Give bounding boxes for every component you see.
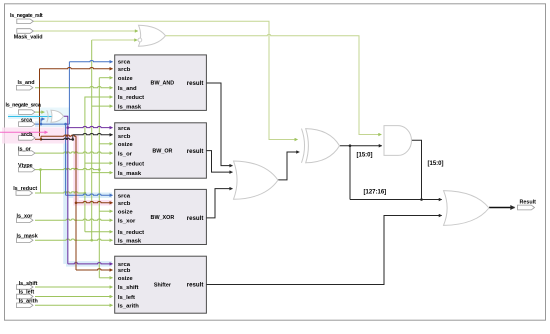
- svg-text:osize: osize: [118, 209, 133, 215]
- svg-text:osize: osize: [118, 76, 133, 82]
- svg-text:[127:16]: [127:16]: [364, 190, 387, 196]
- svg-text:ls_arith: ls_arith: [118, 304, 139, 310]
- svg-text:srca: srca: [118, 126, 131, 132]
- svg-text:osize: osize: [118, 276, 133, 282]
- svg-text:ls_mask: ls_mask: [118, 104, 142, 110]
- svg-text:Vtype: Vtype: [18, 163, 33, 169]
- svg-text:ls_and: ls_and: [18, 80, 35, 86]
- svg-text:ls_negate_srca: ls_negate_srca: [6, 102, 42, 108]
- svg-text:ls_reduct: ls_reduct: [118, 95, 144, 101]
- svg-text:srcb: srcb: [118, 268, 131, 274]
- svg-text:ls_shift: ls_shift: [19, 281, 38, 287]
- svg-text:ls_mask: ls_mask: [118, 171, 142, 177]
- svg-text:BW_OR: BW_OR: [152, 149, 172, 155]
- svg-text:Mask_valid: Mask_valid: [14, 34, 43, 40]
- svg-text:srca: srca: [21, 118, 33, 124]
- svg-text:srcb: srcb: [118, 134, 131, 140]
- svg-text:srca: srca: [118, 262, 131, 268]
- svg-text:ls_mask: ls_mask: [17, 234, 38, 240]
- svg-text:[15:0]: [15:0]: [357, 153, 373, 159]
- svg-text:ls_and: ls_and: [118, 86, 137, 92]
- svg-text:result: result: [187, 215, 204, 222]
- svg-text:BW_XOR: BW_XOR: [151, 215, 175, 221]
- svg-text:ls_left: ls_left: [118, 295, 135, 301]
- svg-text:result: result: [187, 282, 204, 289]
- svg-text:result: result: [187, 80, 204, 87]
- svg-text:ls_shift: ls_shift: [118, 285, 139, 291]
- svg-text:Result: Result: [520, 200, 537, 206]
- svg-text:srcb: srcb: [21, 132, 33, 138]
- svg-text:ls_reduct: ls_reduct: [118, 161, 144, 167]
- svg-text:osize: osize: [118, 142, 133, 148]
- svg-text:ls_mask: ls_mask: [118, 238, 142, 244]
- svg-text:ls_reduct: ls_reduct: [13, 186, 37, 192]
- svg-text:ls_left: ls_left: [19, 290, 35, 296]
- svg-text:ls_reduct: ls_reduct: [118, 230, 144, 236]
- svg-text:[15:0]: [15:0]: [428, 161, 444, 167]
- svg-text:ls_or: ls_or: [118, 151, 133, 157]
- svg-text:srca: srca: [118, 193, 131, 199]
- svg-text:srcb: srcb: [118, 201, 131, 207]
- svg-text:BW_AND: BW_AND: [151, 81, 175, 87]
- svg-text:ls_arith: ls_arith: [19, 298, 38, 304]
- svg-text:result: result: [187, 148, 204, 155]
- svg-text:srcb: srcb: [118, 67, 131, 73]
- svg-text:ls_or: ls_or: [18, 147, 32, 153]
- svg-text:Shifter: Shifter: [154, 283, 172, 289]
- svg-text:ls_xor: ls_xor: [118, 218, 136, 224]
- svg-text:ls_xor: ls_xor: [17, 214, 34, 220]
- svg-text:srca: srca: [118, 59, 131, 65]
- svg-text:ls_negate_rslt: ls_negate_rslt: [10, 13, 43, 19]
